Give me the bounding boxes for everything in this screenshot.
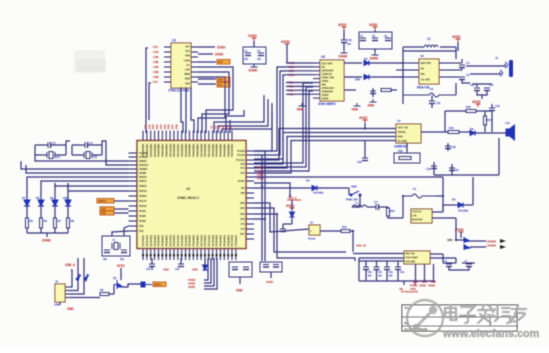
wire <box>470 240 486 242</box>
svg-text:P17: P17 <box>153 80 158 84</box>
wire <box>403 46 410 48</box>
wire <box>359 280 435 282</box>
wire <box>261 186 263 261</box>
wire <box>291 218 293 224</box>
wire <box>364 123 366 129</box>
wire U1 pin4 <box>198 61 216 63</box>
wire <box>472 177 474 205</box>
wire <box>386 270 388 282</box>
wire U5 to U4 bus <box>254 83 313 163</box>
svg-text:Schottky: Schottky <box>313 191 324 195</box>
U1 left pin 5 <box>164 66 171 68</box>
wire <box>120 268 122 280</box>
wire U1 bus down <box>146 48 148 133</box>
svg-text:PB2MO: PB2MO <box>139 167 147 171</box>
wire LED to U4 <box>55 183 129 186</box>
capacitor C23 <box>178 264 184 267</box>
U1 left pin 6 <box>164 71 171 73</box>
svg-text:GND: GND <box>236 289 243 293</box>
capacitor C29 <box>376 204 379 210</box>
wire <box>26 183 28 200</box>
ground <box>370 99 377 102</box>
wire power bundle <box>204 258 214 286</box>
svg-text:SWR 2: SWR 2 <box>154 283 163 287</box>
capacitor C12 <box>370 91 376 94</box>
wire <box>442 177 444 212</box>
wire <box>470 72 500 74</box>
svg-text:SHD: SHD <box>398 135 403 139</box>
wire <box>70 297 100 299</box>
svg-text:22p: 22p <box>103 257 107 261</box>
crystal Y4 block <box>102 236 130 256</box>
svg-text:DVDD: DVDD <box>217 46 226 50</box>
wire <box>472 83 492 85</box>
wire <box>403 281 405 285</box>
capacitor C31 <box>374 267 380 270</box>
svg-text:4VDD: 4VDD <box>452 35 461 39</box>
wire U5 bus to U4 top a <box>214 95 264 133</box>
capacitor C33 <box>395 267 401 270</box>
capacitor C18 <box>445 146 451 149</box>
wire <box>286 74 313 76</box>
wire U1 to U4 e <box>185 87 187 133</box>
capacitor C15 <box>489 108 495 111</box>
resistor R17 <box>484 116 487 125</box>
wire <box>455 83 457 95</box>
wire <box>358 258 360 281</box>
wire <box>35 154 40 156</box>
net label SCL <box>217 83 230 88</box>
wire power bundle <box>204 258 217 289</box>
svg-text:22p: 22p <box>120 257 124 261</box>
U1 left pin 2 <box>164 51 171 53</box>
resistor R8 <box>67 218 70 228</box>
svg-text:PB4O0: PB4O0 <box>139 175 147 179</box>
svg-text:TxL VDZ: TxL VDZ <box>421 78 431 82</box>
wire <box>476 84 478 87</box>
capacitor C34 <box>446 264 452 267</box>
wire <box>461 59 463 63</box>
wire <box>391 89 397 91</box>
U8 body <box>411 209 432 223</box>
svg-text:USB_A: USB_A <box>65 263 76 267</box>
wire <box>306 187 312 189</box>
capacitor C35 <box>466 264 472 267</box>
svg-text:P65: P65 <box>163 124 167 129</box>
wire <box>460 232 462 238</box>
svg-text:VDDD: VDDD <box>322 97 329 101</box>
U6 left pin <box>396 69 419 71</box>
svg-text:STA0-VM8TX: STA0-VM8TX <box>318 102 337 106</box>
U9 body <box>404 251 430 264</box>
wire <box>67 183 69 200</box>
svg-text:PC1A9: PC1A9 <box>237 153 245 157</box>
wire U1 to U4 b <box>198 72 229 133</box>
J2 USB body <box>55 284 65 302</box>
wire <box>424 264 426 282</box>
svg-text:R18: R18 <box>398 149 403 153</box>
svg-text:VD8: VD8 <box>185 54 190 58</box>
wire <box>40 206 42 218</box>
U5 left pin 5 <box>313 78 320 80</box>
wire <box>443 204 458 206</box>
svg-text:LED8: LED8 <box>183 58 190 62</box>
wire <box>291 200 293 211</box>
svg-text:PC GND: PC GND <box>398 139 408 143</box>
svg-text:ATMEL MEGA-X: ATMEL MEGA-X <box>177 196 200 200</box>
wire <box>46 233 48 237</box>
U5 left pin 9 <box>313 93 320 95</box>
wire <box>40 154 47 156</box>
U1 right pin 6 <box>191 71 198 73</box>
diode D14 <box>203 265 208 270</box>
wire <box>54 183 56 200</box>
ground <box>354 103 361 106</box>
wire <box>34 145 36 155</box>
diode D6 <box>470 131 475 136</box>
wire <box>431 95 433 101</box>
svg-text:SWRT1: SWRT1 <box>98 199 107 203</box>
wire U5 to U4 bus <box>254 71 286 155</box>
wire <box>320 230 341 232</box>
wire <box>462 80 470 84</box>
wire <box>449 267 469 271</box>
svg-text:PB0SS: PB0SS <box>139 159 147 163</box>
resistor R5 <box>26 218 29 228</box>
wire U5 to U4 bus <box>254 75 286 159</box>
svg-text:GND: GND <box>67 307 74 311</box>
svg-text:GND: GND <box>352 108 359 112</box>
wire U5 to U4 bus <box>254 87 313 167</box>
wire <box>484 125 486 132</box>
svg-text:C1b: C1b <box>400 271 405 274</box>
wire to SWR <box>123 284 141 287</box>
wire <box>282 224 284 229</box>
wire <box>372 88 374 97</box>
wire <box>286 44 288 63</box>
wire <box>443 262 456 264</box>
wire <box>484 111 486 116</box>
svg-text:P60: P60 <box>144 124 148 129</box>
wire USB D- to U4 <box>70 258 84 294</box>
svg-text:R10: R10 <box>390 209 395 213</box>
svg-text:PB6O2: PB6O2 <box>139 184 147 188</box>
capacitor C11 <box>429 101 435 104</box>
svg-text:www.elecfans.com: www.elecfans.com <box>442 328 539 340</box>
svg-text:VDD IN: VDD IN <box>398 130 406 134</box>
svg-text:Power: Power <box>308 237 317 241</box>
wire <box>254 183 290 196</box>
J4 body <box>309 225 320 235</box>
wire <box>387 207 389 208</box>
wire <box>286 62 313 64</box>
capacitor C25 <box>243 267 249 270</box>
svg-text:U1: U1 <box>172 39 176 43</box>
svg-text:APWL VSS: APWL VSS <box>322 76 335 80</box>
svg-text:YE2: YE2 <box>185 49 190 53</box>
wire <box>180 258 182 264</box>
svg-text:R14: R14 <box>342 225 347 229</box>
svg-text:DGND: DGND <box>339 55 348 59</box>
wire <box>481 95 483 99</box>
resistor R18 <box>399 157 411 160</box>
diode D3 <box>364 75 369 80</box>
svg-text:D4: D4 <box>306 179 310 183</box>
wire <box>26 206 28 218</box>
capacitor C3 <box>48 142 51 148</box>
wire <box>286 89 313 91</box>
wire <box>432 211 443 213</box>
wire power bundle <box>204 258 211 283</box>
wire U5 bus to U4 top b <box>218 99 268 133</box>
wire Y4 to U4 <box>112 231 129 236</box>
wire U4 to U7 3 <box>254 137 396 169</box>
svg-text:LVD GND: LVD GND <box>405 260 415 264</box>
svg-text:A1: A1 <box>213 125 217 129</box>
svg-text:VR1 YG8: VR1 YG8 <box>405 252 415 256</box>
wire USB D+ to U4 <box>70 258 78 291</box>
svg-text:PE4IN: PE4IN <box>139 214 146 218</box>
wire <box>72 154 84 156</box>
svg-text:F2: F2 <box>430 87 434 91</box>
svg-text:AVDD: AVDD <box>472 100 481 104</box>
wire U4 to power jack <box>254 203 309 232</box>
svg-text:PD0: PD0 <box>139 224 144 228</box>
capacitor C2 <box>258 53 264 56</box>
wire <box>67 228 69 233</box>
wire <box>447 143 449 151</box>
svg-text:RST: RST <box>218 60 223 64</box>
svg-text:PC2A10: PC2A10 <box>236 158 245 162</box>
wire <box>414 281 416 285</box>
wire <box>254 155 262 186</box>
wire <box>456 239 464 241</box>
ground AGND <box>372 52 379 55</box>
wire <box>376 270 378 282</box>
svg-text:3VDD: 3VDD <box>338 23 347 27</box>
wire Y4 to U4 b <box>124 226 129 236</box>
capacitor C27 <box>273 265 279 268</box>
faint smudge artifact <box>74 50 105 73</box>
capacitor C9 <box>385 38 391 41</box>
wire <box>67 206 69 218</box>
svg-text:DATA/VDD: DATA/VDD <box>322 69 334 73</box>
svg-text:AGND: AGND <box>370 57 379 61</box>
wire <box>27 177 60 183</box>
wire <box>114 208 129 210</box>
resistor R16 <box>466 110 476 113</box>
svg-text:PC0A8: PC0A8 <box>237 149 245 153</box>
wire <box>440 46 456 48</box>
svg-text:SCL: SCL <box>218 83 223 87</box>
U1 right pin 2 <box>191 51 198 53</box>
wire U5 to U4 bus <box>254 91 313 171</box>
wire <box>461 68 463 71</box>
svg-text:YE1: YE1 <box>185 45 190 49</box>
U1 right pin 5 <box>191 66 198 68</box>
wire U5 bus to U4 top c <box>222 103 272 133</box>
capacitor C13 <box>459 65 465 68</box>
wire <box>386 261 388 267</box>
U4 left pins <box>129 152 138 154</box>
wire crystal to U4 b <box>102 141 129 165</box>
wire <box>445 110 466 112</box>
wire <box>457 42 459 51</box>
wire <box>286 85 313 87</box>
svg-text:P61: P61 <box>147 124 151 129</box>
svg-text:PB5O1: PB5O1 <box>139 179 147 183</box>
svg-text:C21: C21 <box>454 168 459 172</box>
wire U1 to U4 c <box>198 77 225 133</box>
svg-text:C10: C10 <box>347 38 352 42</box>
svg-text:+3VDD0: +3VDD0 <box>486 244 496 248</box>
svg-text:VDD: VDD <box>447 238 452 242</box>
capacitor loop C26 C27 <box>260 262 282 272</box>
net label TX0 <box>100 207 114 211</box>
svg-text:SPK: SPK <box>355 78 360 82</box>
connector pins <box>500 239 506 243</box>
svg-text:GND: GND <box>297 108 304 112</box>
U7 body <box>396 124 421 143</box>
wire <box>70 270 72 287</box>
svg-text:R16: R16 <box>466 105 471 109</box>
wire crystal to U4 c <box>21 161 129 169</box>
diode D15 <box>290 212 295 217</box>
svg-text:PC0A0D0: PC0A0D0 <box>234 234 238 246</box>
diode D2 <box>364 61 369 66</box>
wire <box>253 41 255 47</box>
wire U1 bus down 2 <box>149 83 151 120</box>
svg-text:4x 4xxxxxx4x: 4x 4xxxxxx4x <box>401 290 418 294</box>
capacitor C14 <box>459 77 465 80</box>
resistor R15 <box>448 131 459 134</box>
svg-text:A5: A5 <box>229 125 233 129</box>
svg-text:RDA-TxE: RDA-TxE <box>417 86 429 90</box>
U1 left pin 4 <box>164 61 171 63</box>
U1 left pin 1 <box>164 46 171 48</box>
U5 left pin 8 <box>313 89 320 91</box>
wire U7 out <box>421 131 448 133</box>
capacitor C7 <box>360 38 366 41</box>
watermark text 电子发烧友 <box>445 305 526 323</box>
svg-text:SCK VDD: SCK VDD <box>322 62 333 66</box>
svg-text:VB3_3: VB3_3 <box>288 196 297 200</box>
svg-text:GND: GND <box>368 104 375 108</box>
capacitor C19 <box>431 166 437 169</box>
svg-text:PxRXD1: PxRXD1 <box>139 151 149 155</box>
wire <box>54 228 56 233</box>
svg-text:BxR VDD: BxR VDD <box>421 61 432 65</box>
svg-text:PxTXD1: PxTXD1 <box>139 155 148 159</box>
svg-text:R15: R15 <box>449 126 454 130</box>
wire <box>101 145 103 155</box>
wire U1 to U4 d <box>191 87 194 133</box>
svg-text:P66: P66 <box>167 124 171 129</box>
U5 left pin 6 <box>313 82 320 84</box>
svg-text:A3: A3 <box>221 125 225 129</box>
wire U1 pin2 to DVDD <box>198 53 213 55</box>
svg-text:PE0RX: PE0RX <box>139 194 147 198</box>
wire LED to U4 <box>68 183 129 191</box>
capacitor C8 <box>372 38 378 41</box>
wire <box>433 162 435 175</box>
diode D12 <box>76 274 81 281</box>
wire <box>359 257 404 259</box>
transistor Q3 <box>464 244 470 250</box>
svg-text:VDDD: VDDD <box>322 93 329 97</box>
svg-text:WR8: WR8 <box>184 72 190 76</box>
svg-text:KPxx-x: KPxx-x <box>487 313 496 317</box>
svg-text:C19: C19 <box>426 167 431 171</box>
wire <box>270 272 272 278</box>
svg-text:RS: RS <box>421 67 425 71</box>
wire <box>476 110 492 112</box>
svg-text:4VDD: 4VDD <box>369 23 378 27</box>
svg-text:RD8: RD8 <box>185 77 190 81</box>
capacitor C10 <box>341 40 347 43</box>
wire <box>444 111 446 132</box>
wire <box>352 199 360 207</box>
svg-text:APWL/DD4: APWL/DD4 <box>322 86 335 90</box>
wire <box>374 49 376 52</box>
wire U5 out2 <box>344 76 362 78</box>
svg-text:DVDD: DVDD <box>215 53 224 57</box>
svg-text:RX0: RX0 <box>101 211 106 215</box>
wire to U4 f <box>72 180 129 182</box>
wire <box>397 261 399 267</box>
capacitor C17 <box>484 88 490 91</box>
switch SW1 <box>350 191 361 196</box>
U5 left pin 2 <box>313 66 320 68</box>
capacitor C5 <box>104 250 110 253</box>
resistor network R18 <box>394 153 420 163</box>
svg-text:SRL: SRL <box>322 83 327 87</box>
wire <box>436 195 443 197</box>
U1 right pin 3 <box>191 56 198 58</box>
ground <box>299 103 306 106</box>
svg-text:C18: C18 <box>451 145 456 149</box>
U5 left pin 10 <box>313 97 320 99</box>
wire <box>455 47 457 59</box>
capacitor C1 <box>245 53 251 56</box>
wire <box>54 206 56 218</box>
wire U4 to power top <box>254 176 443 178</box>
svg-text:PD1: PD1 <box>139 229 144 233</box>
svg-text:A0: A0 <box>210 125 214 129</box>
svg-text:L2: L2 <box>427 37 431 41</box>
wire <box>359 195 361 199</box>
svg-text:OUT+ VD: OUT+ VD <box>398 126 409 130</box>
wire <box>379 206 389 208</box>
wire to U4 top e <box>229 120 231 133</box>
wire <box>254 214 355 261</box>
diode D5 symbol <box>458 203 463 208</box>
resistor R10 <box>387 208 390 216</box>
wire <box>283 223 292 225</box>
crystal group Y2 caps <box>85 142 88 148</box>
wire power bundle <box>204 258 208 280</box>
transistor Q1 <box>114 280 123 289</box>
diode D13 <box>84 274 89 281</box>
svg-text:F1: F1 <box>413 187 417 191</box>
svg-text:APW/VDD: APW/VDD <box>322 90 334 94</box>
wire <box>374 30 376 32</box>
wire U1 pin7 <box>198 78 216 80</box>
wire <box>369 76 403 78</box>
U4 bottom pins <box>142 249 144 261</box>
wire <box>59 302 61 305</box>
wire <box>498 138 500 175</box>
